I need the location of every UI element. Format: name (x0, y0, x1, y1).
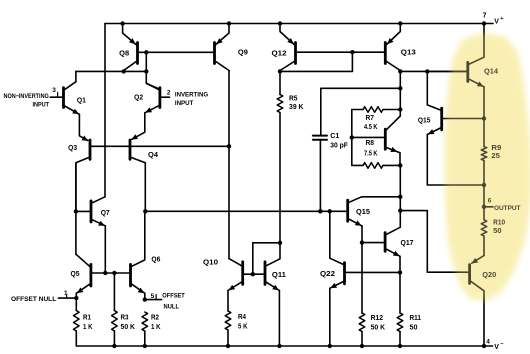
transistor Q11 (264, 262, 267, 285)
transistor Q15 (current limit) (440, 108, 443, 130)
svg-text:Q9: Q9 (238, 50, 248, 57)
svg-text:Q4: Q4 (148, 152, 158, 159)
svg-text:7.5 K: 7.5 K (364, 151, 378, 158)
node Q15 collector link junction (398, 195, 402, 199)
transistor Q17 (384, 233, 387, 252)
wire Q1-Q8-Q2 collector bus (76, 70, 146, 72)
svg-text:Q6: Q6 (151, 257, 160, 264)
svg-text:Q7: Q7 (101, 210, 110, 217)
node Q3/Q4 base junction (227, 144, 231, 148)
node Q4/Q6 collector junction (143, 209, 147, 213)
svg-text:1 K: 1 K (151, 324, 161, 331)
wire Q8-Q9 base link (139, 51, 213, 53)
wire Q20 base feed (400, 211, 468, 273)
node Q22 collector junction (328, 209, 332, 213)
wire Q2 collector drop (146, 71, 158, 88)
resistor R4 (227, 291, 229, 312)
svg-text:50 K: 50 K (371, 325, 386, 332)
svg-text:Q13: Q13 (401, 50, 416, 57)
svg-text:R12: R12 (371, 315, 384, 322)
svg-text:Q10: Q10 (203, 260, 218, 267)
node R2 bottom (143, 344, 147, 348)
svg-text:R11: R11 (410, 315, 422, 322)
wire Q14 emitter vertical (483, 87, 485, 147)
resistor R9 (481, 147, 487, 161)
node Q8 emitter on V+ rail (120, 21, 124, 25)
wire Q3-Q4 base line to Q9 collector (91, 145, 229, 147)
wire R7-R8 left tie (351, 110, 353, 166)
svg-text:R5: R5 (289, 96, 298, 103)
svg-text:NULL: NULL (164, 303, 180, 310)
transistor Q12 (294, 43, 297, 64)
svg-text:Q3: Q3 (68, 145, 77, 152)
node Q9 emitter on V+ rail (227, 21, 231, 25)
node R3 top junction (112, 271, 116, 275)
transistor Q15 (driver) (346, 200, 349, 221)
svg-text:Q11: Q11 (272, 272, 286, 279)
wire Q15 emitter to output node (427, 135, 484, 186)
svg-text:3: 3 (52, 87, 56, 94)
resistor R12 (359, 313, 365, 332)
node Q22 emitter on V- rail (328, 344, 332, 348)
node Q11 base tie (251, 272, 255, 276)
wire Q5-Q6 base line (92, 272, 129, 274)
svg-text:5 K: 5 K (238, 324, 248, 331)
svg-text:C1: C1 (330, 133, 339, 140)
svg-text:INPUT: INPUT (175, 100, 194, 107)
node Q13 emitter on V+ rail (398, 21, 402, 25)
svg-text:5: 5 (151, 293, 155, 300)
svg-text:Q8: Q8 (119, 51, 129, 58)
resistor R1 (75, 298, 77, 310)
svg-text:Q12: Q12 (272, 51, 287, 58)
svg-text:50 K: 50 K (121, 324, 136, 331)
node R3 bottom (112, 344, 116, 348)
wire Q12 base-collector tie (281, 52, 352, 71)
wire Q11 collector-base tie (253, 243, 280, 274)
svg-text:−: − (500, 341, 503, 347)
svg-text:INPUT: INPUT (33, 101, 50, 108)
svg-text:V: V (494, 18, 499, 25)
svg-text:2: 2 (167, 89, 171, 96)
node pin 4 V- (482, 344, 486, 348)
resistor R10 (483, 207, 485, 220)
svg-text:7: 7 (483, 13, 487, 20)
highlight blob overlay tint (445, 33, 530, 301)
resistor R7 (352, 109, 363, 111)
svg-text:INVERTING: INVERTING (175, 91, 208, 98)
pin 5 offset null (143, 297, 147, 301)
wire Q8 base-collector tie (145, 52, 147, 71)
node R8 right junction (398, 163, 402, 167)
resistor R5 (279, 71, 281, 94)
resistor R11 (399, 272, 401, 313)
transistor Q5 (90, 264, 93, 286)
transistor Q2 (158, 88, 161, 108)
svg-text:R3: R3 (121, 315, 129, 322)
transistor Q8 (136, 43, 139, 64)
svg-text:Q2: Q2 (134, 95, 143, 102)
wire output vertical (483, 185, 485, 207)
node Q15 base junction (482, 116, 486, 120)
svg-text:R2: R2 (151, 315, 159, 322)
svg-text:Q5: Q5 (71, 271, 80, 278)
wire Q4/Q6 collector to Q15 base (145, 210, 346, 212)
node C1 bottom junction (318, 209, 322, 213)
wire Q7 base tap (76, 210, 90, 212)
wire Q13 collector to Q14 base (400, 70, 466, 72)
wire Q9 collector vertical (228, 71, 230, 259)
node R11 bottom (398, 344, 402, 348)
transistor Q4 (129, 140, 132, 159)
svg-text:Q15: Q15 (418, 118, 431, 125)
svg-text:R8: R8 (366, 140, 375, 147)
V- rail (bottom) (76, 345, 492, 347)
svg-text:R1: R1 (83, 315, 91, 322)
wire Q3C-Q5C vertical (75, 163, 77, 255)
svg-text:NON−INVERTING: NON−INVERTING (4, 93, 49, 100)
resistor R3 (113, 273, 115, 311)
pin 3 non-inverting input (50, 96, 62, 98)
svg-text:4: 4 (486, 339, 490, 346)
transistor Q9 (213, 43, 216, 64)
node Q17 emitter junction (398, 270, 402, 274)
svg-text:Q17: Q17 (401, 240, 414, 247)
svg-text:1 K: 1 K (83, 324, 93, 331)
wire bias node vertical lower (399, 165, 401, 227)
node VBE base junction (350, 135, 354, 139)
node Q13 collector junction (398, 69, 402, 73)
transistor Q7 (90, 201, 93, 222)
wire Q12-Q13 base link (297, 51, 384, 53)
svg-text:4.5 K: 4.5 K (364, 124, 378, 131)
transistor Q13 (384, 43, 387, 64)
pin 1 offset null (74, 296, 78, 300)
svg-text:OFFSET: OFFSET (162, 293, 185, 300)
transistor Q3 (89, 140, 92, 159)
svg-text:30 pF: 30 pF (330, 143, 348, 150)
wire bias node vertical upper (399, 71, 401, 116)
highlight blob under output stage (445, 33, 530, 301)
svg-text:V: V (494, 344, 499, 351)
svg-text:Q1: Q1 (77, 98, 86, 105)
resistor R8 (352, 164, 363, 166)
pin 2 inverting input (161, 96, 169, 98)
node R9 bottom junction (482, 183, 486, 187)
node C1 junction on signal line (318, 209, 322, 213)
wire V+ left vertical to Q7 collector (104, 24, 106, 197)
node Q12 collector junction (278, 69, 282, 73)
transistor Q10 (241, 262, 244, 285)
V+ rail (top) (105, 23, 493, 25)
node Q12 emitter on V+ rail (278, 21, 282, 25)
svg-text:R7: R7 (366, 115, 375, 122)
transistor Q22 (343, 263, 346, 284)
node Q20 base feed junction (398, 208, 402, 212)
svg-text:50: 50 (410, 325, 418, 332)
node R7 junction (398, 107, 402, 111)
node Q8 collector junction (122, 69, 126, 73)
svg-text:39 K: 39 K (289, 104, 304, 111)
node Q17 base junction (360, 240, 364, 244)
transistor Q20 (468, 265, 471, 284)
node R12 bottom (360, 344, 364, 348)
svg-text:OFFSET NULL: OFFSET NULL (11, 296, 56, 303)
node pin 7 V+ (482, 21, 486, 25)
node Q7 emitter junction (103, 271, 107, 275)
transistor Q6 (129, 264, 132, 286)
node pin 6 output (482, 205, 486, 209)
transistor Q14 (466, 62, 469, 81)
svg-text:1: 1 (64, 290, 68, 297)
transistor Q1 (62, 88, 65, 108)
svg-text:Q22: Q22 (320, 271, 335, 278)
node Q1/Q2 collector junction (144, 69, 148, 73)
node R4 bottom (226, 344, 230, 348)
transistor Q18 (VBE multiplier, unlabeled) (384, 129, 387, 149)
node Q12 base tie (350, 50, 354, 54)
node R5 bottom junction (278, 241, 282, 245)
svg-text:R4: R4 (238, 314, 246, 321)
node Q7 base junction (74, 209, 78, 213)
wire Q10-Q11 base line (244, 273, 264, 275)
node Q11 emitter on V- rail (277, 344, 281, 348)
node Q15 collector junction (425, 69, 429, 73)
node C1 top junction (398, 86, 402, 90)
capacitor C1 (321, 88, 401, 135)
node Q8 base tie (144, 50, 148, 54)
resistor R2 (142, 312, 148, 331)
svg-text:+: + (500, 16, 503, 22)
svg-text:Q15: Q15 (356, 209, 370, 216)
